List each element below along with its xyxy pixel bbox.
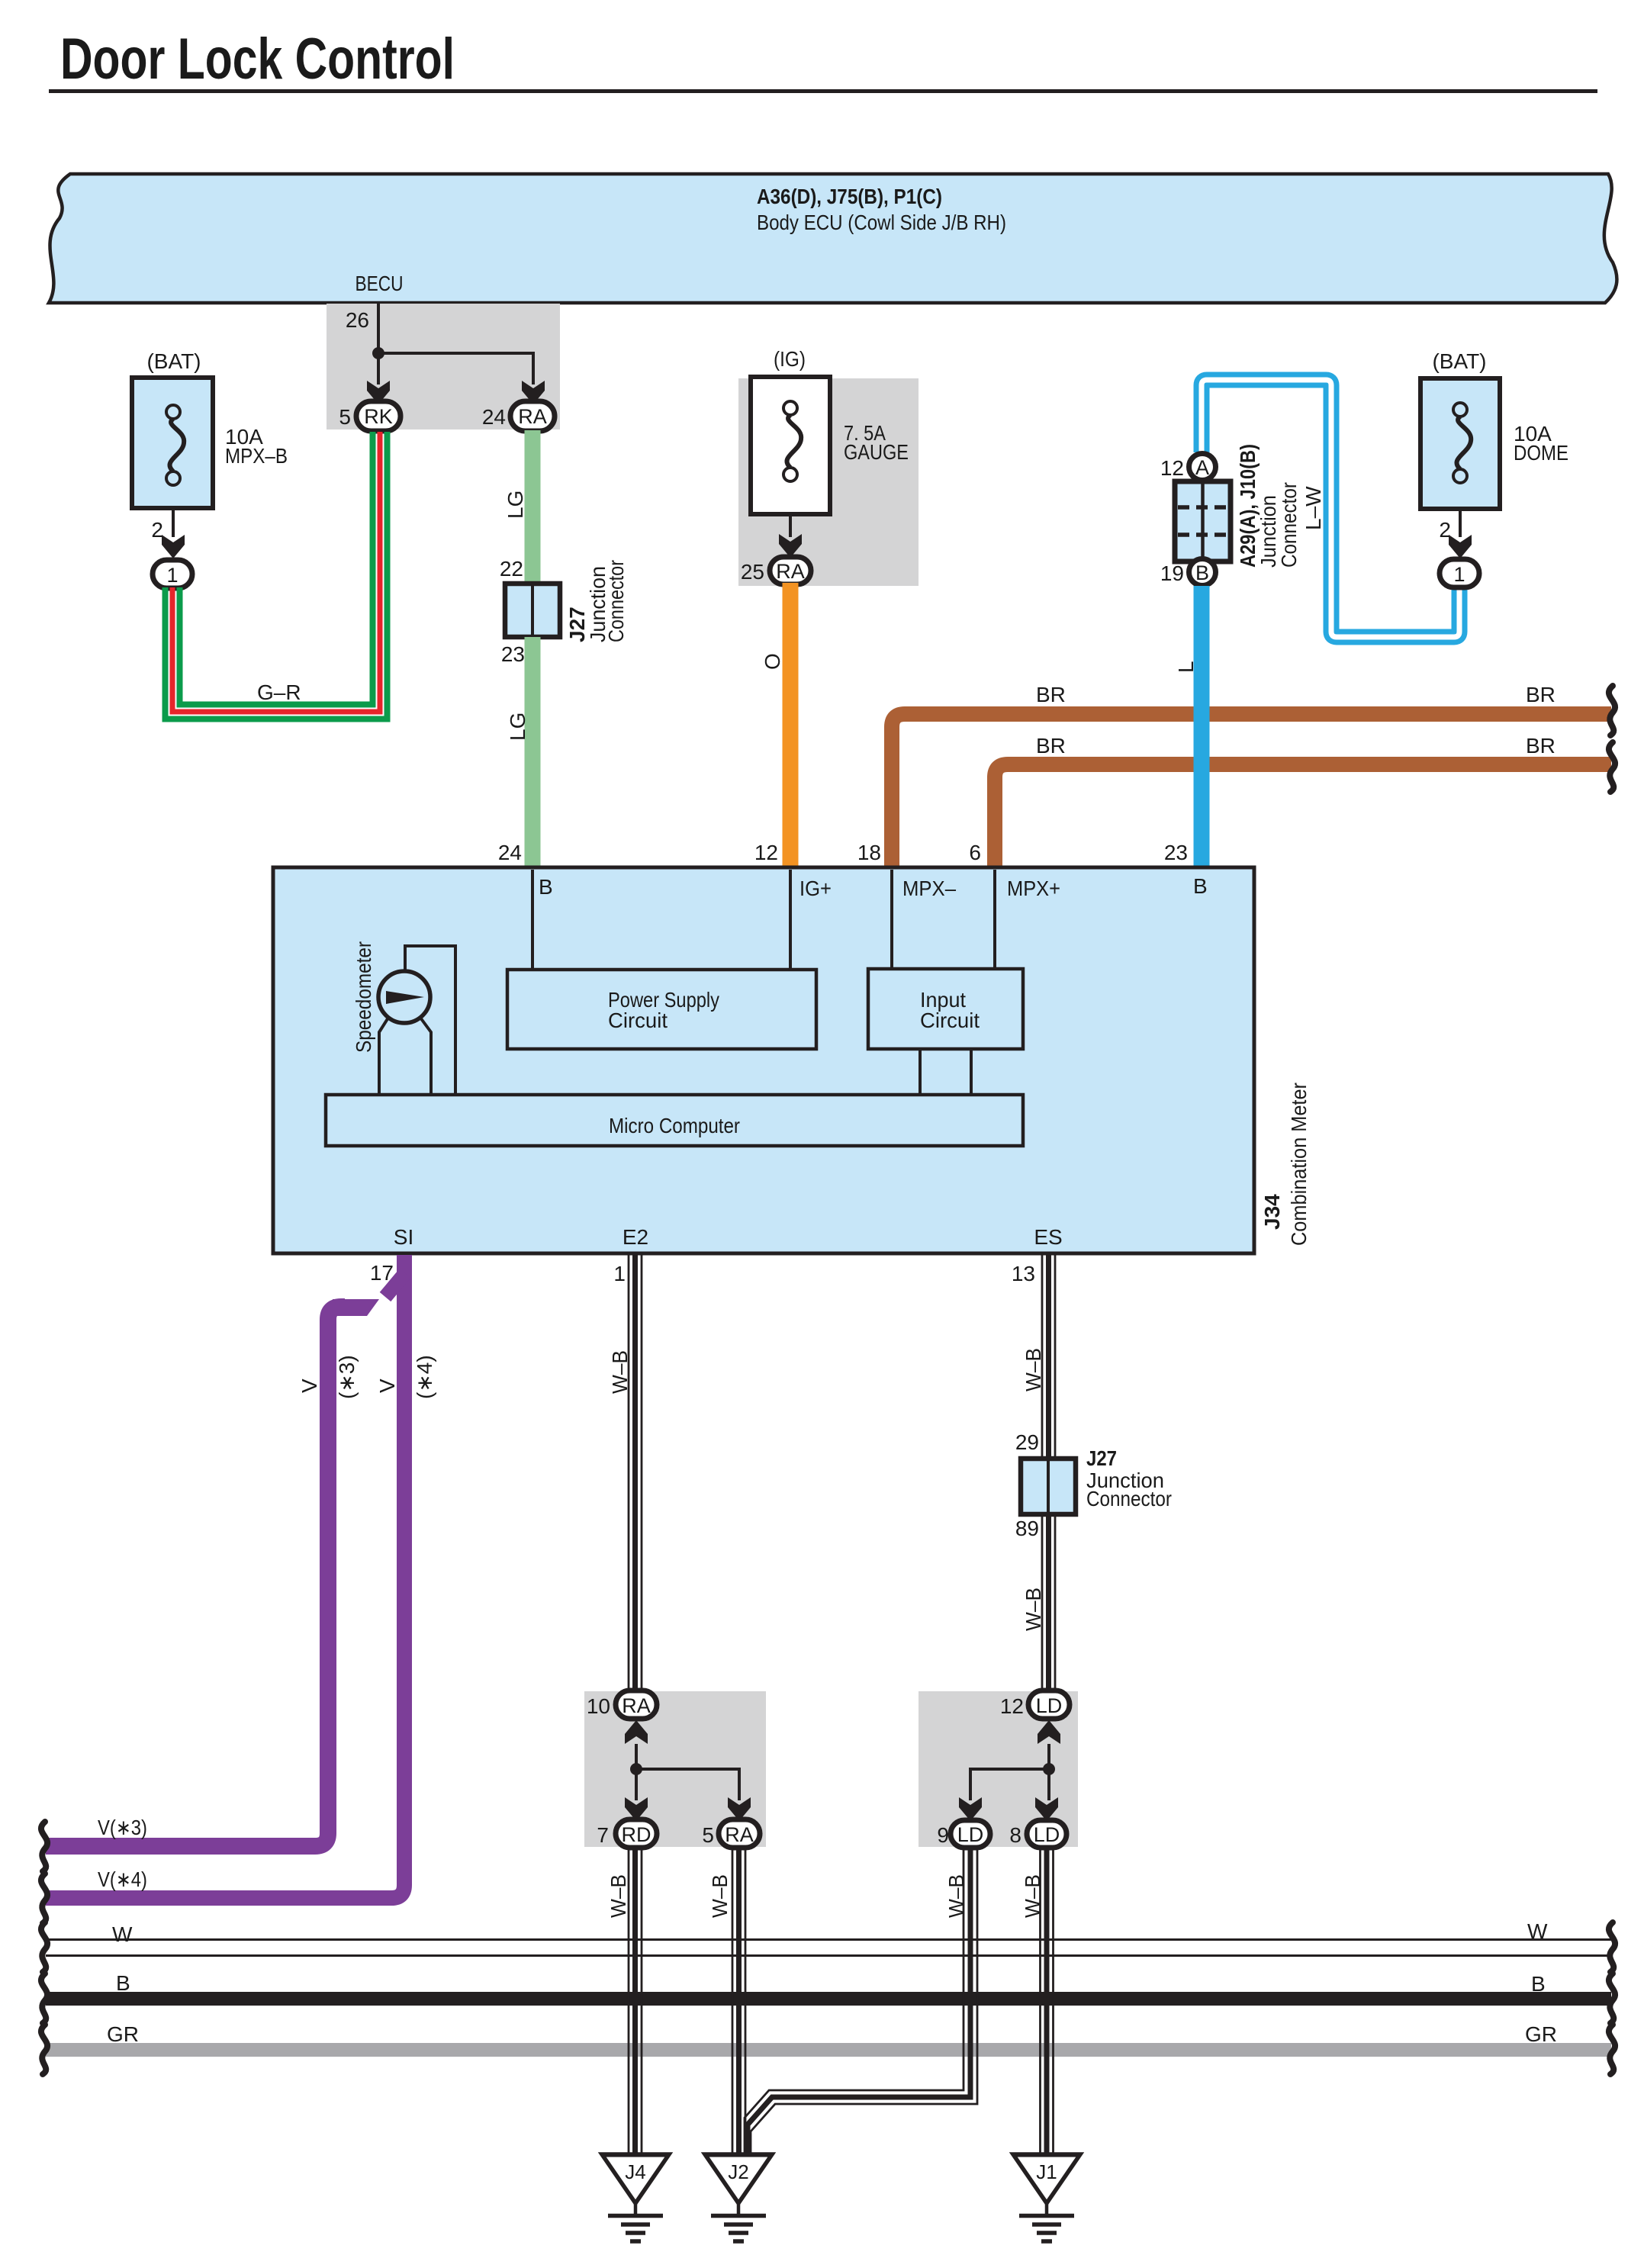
svg-text:(BAT): (BAT) [146,349,201,373]
svg-text:7: 7 [597,1823,609,1847]
terminal oval 1 (DOME) [1440,559,1479,587]
wire GR horizontal [46,2022,1611,2050]
arrow up into RA 10 [625,1720,648,1744]
wire fuse GAUGE to terminal RA 25 [789,514,792,537]
wire BR lower (pin 6) [995,734,1611,867]
power supply circuit box [507,970,816,1049]
pin label 18 (meter) [857,841,881,864]
svg-text:1: 1 [166,564,178,587]
wire W-B from LD 8 to ground J1 [1021,1848,1054,2153]
pin label 6 (meter) [969,841,981,864]
svg-text:W–B: W–B [1021,1348,1045,1391]
gray box LD connector region [919,1691,1078,1847]
svg-text:RA: RA [776,560,805,583]
junction dot at BECU branch [372,347,384,359]
fuse 10A DOME (BAT) [1420,349,1568,509]
svg-text:GR: GR [1525,2022,1557,2046]
arrow into RA 25 [779,534,802,558]
arrow into LD 8 [1035,1797,1058,1821]
svg-text:(IG): (IG) [774,347,806,371]
svg-text:Door Lock Control: Door Lock Control [60,27,455,92]
wire meter pin 12 IG+ to power supply circuit [789,870,792,970]
svg-text:W–B: W–B [1021,1588,1045,1631]
svg-text:Circuit: Circuit [608,1009,668,1032]
junction dot at RA10 branch [630,1763,642,1775]
wire meter pin 24 B to power supply circuit [531,870,534,970]
svg-text:B: B [116,1971,130,1995]
svg-text:IG+: IG+ [799,877,832,900]
svg-text:W–B: W–B [708,1874,732,1918]
svg-text:2: 2 [151,518,163,542]
svg-text:B: B [1193,874,1208,898]
pin label 22 [500,557,523,581]
svg-text:MPX+: MPX+ [1007,877,1060,900]
gray box RA/RD connector region [584,1691,766,1847]
wire LG from J27 to combination meter pin 24 [506,637,532,867]
svg-text:10: 10 [587,1694,610,1718]
Body ECU band (A36(D), J75(B), P1(C)) [49,174,1617,303]
svg-text:LD: LD [1036,1694,1063,1717]
svg-text:V: V [298,1378,321,1393]
connector RK pin 5 [339,401,401,431]
connector RA pin 10 [587,1691,657,1719]
svg-text:LD: LD [957,1823,984,1846]
svg-text:A: A [1195,456,1209,479]
break squiggle GR right [1609,2025,1615,2074]
svg-text:MPX–: MPX– [902,877,956,900]
wire W-B from meter pin 1 E2 [608,1255,642,1691]
svg-text:J1: J1 [1036,2160,1057,2183]
arrow into terminal 1 left [162,535,185,558]
break squiggle W right [1609,1922,1615,1972]
break squiggle W left [41,1922,47,1972]
svg-text:(∗4): (∗4) [413,1355,436,1399]
svg-text:W: W [1527,1919,1548,1943]
wire B horizontal [46,1971,1611,1999]
svg-text:24: 24 [498,841,522,864]
pin label 89 [1015,1517,1039,1540]
wire L from B to meter pin 23 [1174,586,1202,867]
connector LD pin 8 [1009,1820,1067,1848]
svg-text:W: W [112,1922,133,1946]
svg-text:Connector: Connector [604,560,628,642]
arrow into LD 9 [959,1797,982,1821]
svg-text:J27: J27 [1086,1446,1117,1470]
svg-text:W–B: W–B [608,1350,632,1394]
wire LD12 to LD9 and LD8 [970,1744,1049,1800]
svg-text:RA: RA [725,1823,754,1846]
break squiggle V3 left [41,1822,47,1871]
svg-text:V(∗3): V(∗3) [98,1816,147,1839]
break squiggle B right [1609,1974,1615,2023]
svg-text:W–B: W–B [606,1874,630,1918]
connector LD pin 9 [937,1820,990,1848]
arrow into RA 24 [522,381,545,404]
ground J2 [704,2154,773,2241]
arrow into RA 5 [728,1797,751,1821]
arrow into terminal 1 right [1449,535,1472,558]
svg-text:Connector: Connector [1277,482,1301,568]
label J34 Combination Meter [1260,1083,1311,1246]
svg-text:Speedometer: Speedometer [352,941,375,1053]
connector RA pin 5 [702,1819,760,1848]
svg-text:RA: RA [622,1694,651,1717]
svg-text:BECU: BECU [356,272,404,295]
terminal circle A pin 12 [1160,454,1216,481]
svg-text:J34: J34 [1260,1194,1284,1230]
connector RA pin 24 [482,401,555,431]
svg-text:W–B: W–B [944,1874,968,1918]
wire LG from RA 24 to junction connector J27 [503,430,532,584]
break squiggle V4 left [41,1874,47,1923]
wire G-R from terminal 1 to RK [166,432,388,719]
arrow up into LD 12 [1038,1720,1060,1744]
svg-text:23: 23 [1164,841,1188,864]
svg-text:V(∗4): V(∗4) [98,1867,147,1891]
wire W-B from RA 5 to ground J2 [708,1848,745,2153]
pin label 17 (meter SI) [370,1261,394,1285]
wire V (*4) from meter pin 17 [46,1255,436,1898]
pin label 23 [501,642,525,666]
svg-text:J2: J2 [728,2160,748,2183]
pin label 26 [346,308,369,332]
svg-text:19: 19 [1160,561,1184,585]
svg-text:1: 1 [1453,563,1465,586]
svg-text:RD: RD [622,1823,651,1846]
wire W-B from meter pin 13 ES to J27 [1021,1255,1055,1459]
svg-text:RA: RA [518,405,547,428]
svg-text:25: 25 [741,560,764,584]
svg-text:1: 1 [613,1262,626,1285]
svg-text:12: 12 [1000,1694,1024,1718]
svg-text:LG: LG [506,713,529,741]
svg-text:Micro Computer: Micro Computer [609,1114,740,1137]
arrow into RK [367,381,390,404]
svg-text:MPX–B: MPX–B [225,444,288,468]
wire W horizontal [46,1919,1611,1956]
ground J1 [1012,2154,1081,2241]
wire fuse DOME to pin 2 [1459,509,1462,537]
svg-text:(∗3): (∗3) [335,1355,359,1399]
svg-text:8: 8 [1009,1823,1021,1847]
svg-text:SI: SI [394,1225,413,1249]
node BECU [356,272,404,295]
pin label 2 [1439,518,1451,542]
fuse 7.5A GAUGE (IG) [751,347,909,514]
wire O (orange) from RA 25 to meter pin 12 [761,583,790,867]
svg-text:6: 6 [969,841,981,864]
svg-text:Combination Meter: Combination Meter [1287,1083,1311,1246]
combination meter J34 box [273,867,1254,1253]
pin label 1 (meter E2) [613,1262,626,1285]
svg-text:B: B [539,875,553,899]
wire W-B from LD 9 to ground J2 [745,1848,977,2153]
break squiggle BR upper right [1609,686,1615,735]
junction connector A29(A), J10(B) [1175,444,1301,568]
svg-text:O: O [761,653,784,670]
speedometer assembly [352,941,455,1095]
junction connector J27 (on ES wire) [1021,1446,1172,1514]
micro computer box [326,1095,1023,1146]
svg-text:13: 13 [1012,1262,1035,1285]
svg-text:G–R: G–R [257,680,301,704]
title underline [49,89,1597,93]
svg-text:L–W: L–W [1301,486,1325,530]
junction connector J27 (on LG wire) [505,560,628,642]
gray box BECU connector region [327,304,560,429]
pin label 29 [1015,1430,1039,1454]
break squiggle B left [41,1974,47,2023]
svg-text:9: 9 [937,1823,949,1847]
svg-text:ES: ES [1034,1225,1062,1249]
pin label 23 (meter) [1164,841,1188,864]
svg-text:26: 26 [346,308,369,332]
svg-text:5: 5 [702,1823,714,1847]
svg-text:Body ECU (Cowl Side J/B RH): Body ECU (Cowl Side J/B RH) [757,211,1006,234]
svg-text:GAUGE: GAUGE [844,440,909,464]
svg-text:LG: LG [503,491,527,519]
svg-text:23: 23 [501,642,525,666]
break squiggle GR left [41,2025,47,2074]
wire BR upper (pin 18) [892,683,1611,867]
svg-text:Circuit: Circuit [920,1009,980,1032]
svg-text:BR: BR [1526,683,1556,706]
arrow into RD 7 [625,1797,648,1821]
pin label 13 (meter ES) [1012,1262,1035,1285]
title Door Lock Control [60,27,455,92]
svg-text:LD: LD [1034,1823,1060,1846]
svg-text:B: B [1195,561,1209,584]
svg-text:A36(D), J75(B), P1(C): A36(D), J75(B), P1(C) [757,185,942,208]
wire V (*3) branch [46,1273,405,1846]
pin label 12 (meter) [754,841,778,864]
pin label 2 [151,518,163,542]
wire RA10 to RD7 and RA5 [636,1744,739,1800]
wires input circuit to micro computer [920,1049,971,1095]
svg-text:BR: BR [1036,734,1066,758]
svg-text:BR: BR [1036,683,1066,706]
svg-text:12: 12 [1160,456,1184,480]
svg-text:W–B: W–B [1021,1874,1044,1918]
wire W-B from RD 7 to ground J4 [606,1848,642,2153]
svg-text:BR: BR [1526,734,1556,758]
pin label 24 (meter) [498,841,522,864]
svg-text:B: B [1531,1972,1546,1996]
svg-text:L: L [1174,661,1198,673]
svg-text:24: 24 [482,405,506,429]
break squiggle BR lower right [1609,742,1615,792]
connector LD pin 12 [1000,1691,1070,1719]
wire meter pin 18 MPX- to input circuit [890,870,893,969]
terminal oval 1 (MPX-B) [153,560,192,588]
svg-text:E2: E2 [623,1225,648,1249]
gray box IG fuse region [738,378,919,586]
wire W-B from J27 to LD 12 [1021,1514,1055,1691]
terminal circle B pin 19 [1160,559,1216,586]
wire fuse MPX-B to pin 2 [172,508,175,537]
connector RD pin 7 [597,1819,657,1848]
svg-text:22: 22 [500,557,523,581]
wire from BECU pin 26 [378,303,533,384]
svg-text:V: V [375,1378,399,1393]
svg-text:GR: GR [107,2022,139,2046]
svg-text:J4: J4 [625,2160,645,2183]
svg-text:RK: RK [364,405,393,428]
input circuit box [868,969,1023,1049]
svg-text:5: 5 [339,405,351,429]
wire L-W from terminal 1 (DOME) to junction connector A [1202,380,1459,637]
junction dot at LD12 branch [1043,1763,1055,1775]
wire meter pin 6 MPX+ to input circuit [993,870,996,969]
svg-text:18: 18 [857,841,881,864]
connector RA pin 25 [741,557,811,584]
svg-text:(BAT): (BAT) [1432,349,1486,373]
svg-text:29: 29 [1015,1430,1039,1454]
svg-text:DOME: DOME [1514,441,1568,465]
fuse 10A MPX-B (BAT) [132,349,288,508]
svg-text:89: 89 [1015,1517,1039,1540]
svg-text:Connector: Connector [1086,1487,1172,1510]
ground J4 [601,2154,670,2241]
svg-text:12: 12 [754,841,778,864]
